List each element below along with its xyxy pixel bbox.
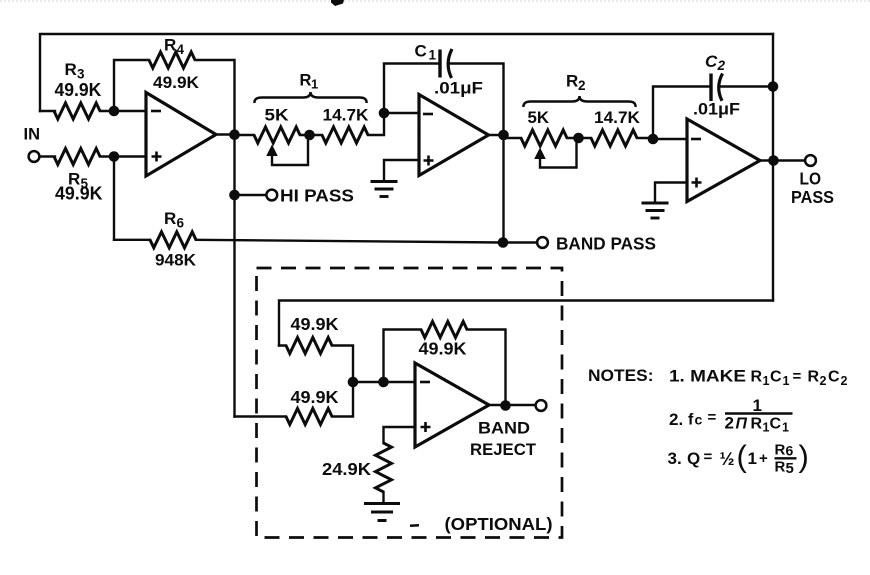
svg-text:1: 1 [753,396,762,415]
op-amp U3 [687,119,760,202]
svg-text:1: 1 [763,374,770,388]
svg-text:2: 2 [578,78,586,93]
svg-text:C: C [770,416,782,433]
node: BAND REJECT terminal [536,400,547,411]
svg-text:5K: 5K [528,108,550,127]
svg-text:½: ½ [720,449,735,469]
svg-text:2: 2 [725,414,734,433]
svg-text:14.7K: 14.7K [323,106,370,125]
wire: non-inverting node down to R6 [113,157,115,240]
svg-text:R: R [751,416,763,433]
label C2 [705,52,726,73]
svg-text:1: 1 [782,421,789,435]
svg-text:R: R [751,369,763,386]
note 2: fc = 1/(2 pi R1 C1) [669,396,793,435]
svg-text:4: 4 [177,42,185,57]
wire: R4 right leg down to U1 output [195,60,235,135]
node: U4 output junction [500,400,511,411]
note 3: Q = 1/2 (1 + R6/R5) [668,439,809,478]
wire: hi-pass vertical down to optional section [233,135,235,417]
svg-text:1: 1 [763,421,770,435]
resistor R6 [150,232,196,248]
svg-text:LO: LO [800,169,822,189]
resistor R3 [54,103,100,119]
svg-text:2: 2 [717,58,726,73]
svg-text:R: R [775,442,786,459]
node: HI PASS terminal [266,190,277,201]
resistor optional 49.9K lower [286,409,332,425]
svg-text:14.7K: 14.7K [594,108,641,127]
svg-text:f: f [688,412,694,429]
svg-text:R: R [65,60,77,79]
scan artifact: ink blob at top center [331,0,344,6]
label R3 [65,60,86,82]
svg-text:2: 2 [841,374,848,388]
resistor R1 pot 5K [254,127,300,143]
svg-text:R: R [808,369,820,386]
resistor optional 49.9K upper [286,338,332,354]
node: U4 inverting junction [378,377,389,388]
node: U2 inverting junction [379,108,390,119]
capacitor C1 loop [384,64,504,136]
resistor R1 fixed 14.7K [322,127,368,143]
svg-text:R: R [164,36,176,55]
resistor R2 pot 5K [521,130,567,146]
label R4 [164,36,185,58]
label R6 [164,209,185,231]
wire: U4 inverting row [353,381,415,383]
svg-text:5K: 5K [265,106,290,125]
svg-text:6: 6 [177,216,185,231]
svg-text:): ) [799,439,809,474]
svg-text:IN: IN [24,125,41,144]
svg-text:948K: 948K [155,251,197,270]
svg-text:+: + [759,450,768,467]
svg-text:1: 1 [748,449,757,468]
svg-text:BAND: BAND [478,419,530,438]
svg-text:49.9K: 49.9K [55,80,102,100]
wire: U3 output to lo-pass terminal [760,159,805,161]
capacitor C2 plates [711,74,723,102]
svg-text:1: 1 [311,77,318,92]
svg-text:c: c [695,412,703,428]
wire: hi-pass output lead [235,194,267,196]
node: IN terminal [29,151,40,162]
node: LO PASS terminal [805,155,816,166]
svg-text:49.9K: 49.9K [419,339,467,359]
svg-text:49.9K: 49.9K [291,314,339,334]
node: U3 output junction [768,155,779,166]
svg-text:49.9K: 49.9K [291,387,339,407]
wire: band-pass vertical [502,135,504,243]
svg-text:R: R [300,72,312,90]
wire: U4 feedback loop [384,330,506,406]
dashed box (OPTIONAL) [257,268,563,538]
svg-text:=: = [708,409,717,426]
brace over R1 [254,92,366,103]
node: U1 non-inverting junction [109,151,120,162]
wire: lo-pass right vertical [772,34,774,301]
op-amp U2 [419,95,489,176]
resistor R4 [149,52,195,68]
svg-text:Q: Q [687,449,700,468]
svg-text:=: = [704,449,713,466]
wire: U2 output [489,134,504,136]
svg-text:NOTES:: NOTES: [588,366,654,385]
label LO PASS [791,169,834,208]
svg-text:24.9K: 24.9K [322,459,371,479]
svg-text:(OPTIONAL): (OPTIONAL) [445,514,553,534]
wire: U1 inverting input row [40,110,146,112]
resistor R5 [54,149,100,165]
ground: U4 [364,504,400,521]
svg-text:3.: 3. [668,449,682,468]
svg-text:5: 5 [786,460,794,477]
svg-text:BAND PASS: BAND PASS [556,234,656,254]
svg-text:HI PASS: HI PASS [280,186,354,206]
resistor R2 fixed 14.7K [591,130,637,146]
node: U1 output junction [229,129,240,140]
op-amp U1 [146,93,216,177]
svg-text:1. MAKE: 1. MAKE [669,367,746,386]
node: U1 inverting junction [109,106,120,117]
wire: U4 non-inverting to 24.9K [384,427,416,443]
wire: U3 inverting lead [653,138,687,140]
wire: U2 inverting lead [384,112,419,114]
resistor optional feedback 49.9K [421,322,467,338]
op-amp U4 [415,363,489,447]
svg-text:2.: 2. [669,410,683,429]
svg-text:.01μF: .01μF [434,79,483,98]
svg-text:REJECT: REJECT [470,440,537,459]
label BAND REJECT [470,419,537,460]
node: R2 pot wiper junction [573,133,584,144]
svg-text:(: ( [737,439,748,474]
wire: R4 left leg [114,60,149,111]
pot wiper arrow R1 [266,137,308,165]
scan artifact: small dash below optional box [410,524,419,527]
wire: U4 output lead [489,404,536,406]
wire: top feedback bus from R3 input up and across to lo-pass line [40,34,773,111]
svg-text:.01μF: .01μF [693,100,740,119]
wire: 24.9K to ground [382,492,384,502]
scan artifact: faint dotted top edge [0,0,870,2]
svg-text:=: = [793,368,802,385]
label C1 [415,42,437,63]
node: C2 top junction [768,81,779,92]
svg-text:C: C [770,369,782,386]
ground: U3 [642,203,669,218]
node: band-pass junction [498,237,509,248]
wire: U1 non-inverting input row [40,155,146,157]
node: R1 pot wiper junction [304,130,315,141]
node: BAND PASS terminal [537,237,548,248]
svg-text:PASS: PASS [791,187,834,207]
wire: R2 row [504,137,654,139]
capacitor C1 plates [440,49,452,78]
label R2 [566,72,586,94]
ground: U2 [371,182,398,197]
node: U3 inverting junction [648,134,659,145]
svg-text:C: C [828,369,840,386]
svg-text:2: 2 [820,374,827,388]
node: hi-pass junction [229,190,240,201]
svg-text:C: C [415,42,427,61]
svg-text:C: C [705,52,718,71]
wire: R1 row [235,113,385,135]
note 1: MAKE R1C1 = R2C2 [669,367,848,389]
wire: U1 output [216,133,235,135]
wire: hi-pass feed into optional section [235,382,354,417]
resistor 24.9K vertical [376,443,392,492]
wire: lo-pass feed into optional section [279,301,773,346]
svg-text:49.9K: 49.9K [55,184,103,204]
svg-text:6: 6 [786,443,794,459]
node: U2 output junction [498,130,509,141]
label R5 [68,170,89,192]
wire: R6 row to band-pass node [114,240,537,243]
wire: U3 non-inverting to ground [655,183,687,202]
svg-text:R: R [566,72,578,91]
svg-text:1: 1 [783,374,790,388]
label R1 [300,72,319,92]
brace over R2 [523,96,635,107]
svg-text:R: R [775,459,786,476]
wire: U2 non-inverting to ground [384,160,419,180]
svg-text:49.9K: 49.9K [153,73,200,92]
svg-text:Π: Π [736,416,748,433]
svg-text:1: 1 [429,48,437,63]
node: optional summing junction [348,377,359,388]
wire: leads of optional input resistor 1 [279,346,353,383]
capacitor C2 loop [653,87,773,140]
svg-text:R: R [164,209,176,228]
pot wiper arrow R2 [534,140,576,168]
